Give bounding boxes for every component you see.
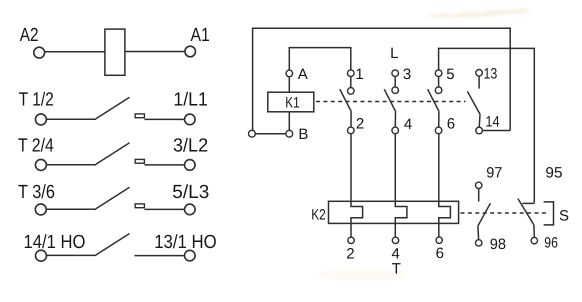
svg-text:1/L1: 1/L1 <box>173 89 207 110</box>
terminal 4 <box>392 127 399 134</box>
wire junction to B <box>253 133 290 135</box>
svg-text:14/1 HO: 14/1 HO <box>24 232 86 253</box>
contact pole 3-4 stub <box>394 77 396 88</box>
terminal 14/1 <box>36 250 47 261</box>
terminal 6 <box>435 127 442 134</box>
svg-text:96: 96 <box>544 234 558 251</box>
switch blade row2 <box>96 143 130 165</box>
svg-text:T 1/2: T 1/2 <box>19 89 54 110</box>
svg-text:3: 3 <box>403 66 411 83</box>
terminal 4 bottom <box>392 237 398 243</box>
aux contact 13-14 blade <box>467 91 480 114</box>
coil K1 rectangle <box>105 29 125 75</box>
terminal 5 <box>435 70 442 77</box>
wire K1 to B <box>288 112 290 131</box>
wire coil to A1 <box>125 51 185 53</box>
terminal 13/1 <box>185 250 196 261</box>
wire pole2 to K2 heater <box>395 134 407 238</box>
wire to 1/L1 <box>144 118 184 120</box>
overload relay K2 box <box>329 201 459 223</box>
svg-text:1: 1 <box>355 66 363 83</box>
terminal A <box>286 70 293 77</box>
terminal A1 <box>185 46 196 57</box>
wire A to K1 <box>288 77 290 93</box>
terminal T3/6 <box>35 204 46 215</box>
node junction left <box>249 130 256 137</box>
wire to 5/L3 <box>144 208 184 210</box>
svg-text:5: 5 <box>446 66 454 83</box>
svg-text:5/L3: 5/L3 <box>172 182 209 203</box>
NC contact 95-96 lower wire <box>533 225 535 238</box>
svg-text:B: B <box>298 126 308 143</box>
smudge top-right <box>425 9 533 18</box>
contact pole 1-2 stub <box>350 77 352 88</box>
terminal 97 <box>476 182 482 188</box>
svg-text:4: 4 <box>404 116 412 133</box>
fixed contact square row1 <box>135 114 144 118</box>
dashed linkage K1 <box>316 101 466 103</box>
svg-text:T 2/4: T 2/4 <box>18 136 54 157</box>
wire 14 to right riser <box>482 130 510 132</box>
svg-text:A2: A2 <box>20 25 39 46</box>
svg-text:S: S <box>559 208 569 225</box>
svg-text:K2: K2 <box>311 207 326 224</box>
wire to 3/L2 <box>144 164 184 166</box>
contact pole 3-4 lower wire <box>394 112 396 128</box>
terminal 1 <box>348 70 355 77</box>
terminal 98 <box>476 240 482 246</box>
contact pole 5-6 stub <box>438 77 440 88</box>
wire A to contact 1 <box>289 48 351 71</box>
top supply wire <box>253 28 511 130</box>
wire T1/2 <box>46 118 96 120</box>
wire T2/4 <box>46 164 96 166</box>
terminal B <box>286 130 293 137</box>
wire to 13/1 <box>134 255 184 257</box>
wire A2 to coil <box>45 51 105 53</box>
svg-text:K1: K1 <box>285 94 299 111</box>
svg-text:A1: A1 <box>191 25 210 46</box>
NC contact 95-96 blade <box>518 199 534 225</box>
aux contact lower wire <box>478 114 481 127</box>
svg-text:3/L2: 3/L2 <box>173 136 208 157</box>
svg-text:6: 6 <box>436 245 444 262</box>
switch blade row1 <box>96 97 130 119</box>
NC contact 95-96 seat <box>522 202 534 204</box>
svg-text:97: 97 <box>486 164 502 181</box>
terminal A2 <box>34 47 45 58</box>
svg-text:T 3/6: T 3/6 <box>18 182 55 203</box>
svg-text:13/1 HO: 13/1 HO <box>154 232 217 253</box>
terminal 2 <box>348 127 355 134</box>
svg-text:6: 6 <box>447 115 455 132</box>
svg-text:13: 13 <box>484 65 498 82</box>
switch blade row4 <box>96 234 130 256</box>
aux contact 13-14 stub <box>478 76 480 89</box>
wire T3/6 <box>46 208 96 210</box>
contact pole 5-6 lower wire <box>438 112 440 128</box>
aux contact 97-98 stub <box>478 189 480 202</box>
terminal 6 bottom <box>436 237 442 243</box>
switch blade row3 <box>96 187 130 209</box>
svg-text:95: 95 <box>545 164 562 181</box>
wire pole1 to K2 heater <box>351 134 363 238</box>
actuator bracket S <box>544 202 554 225</box>
wire 14/1 <box>47 254 97 256</box>
fixed contact square row3 <box>135 204 144 208</box>
wire pole3 to K2 heater <box>439 134 451 238</box>
svg-text:14: 14 <box>485 114 499 131</box>
dashed linkage K2 <box>461 212 549 214</box>
terminal T2/4 <box>35 159 46 170</box>
terminal 2 bottom <box>348 237 354 243</box>
svg-text:2: 2 <box>346 246 354 263</box>
terminal 14 <box>476 127 483 134</box>
contact pole 1-2 blade <box>340 89 352 111</box>
svg-text:A: A <box>298 66 308 83</box>
terminal 3 <box>392 70 399 77</box>
coil K1 box <box>268 92 314 112</box>
contact pole 1-2 lower wire <box>350 112 352 128</box>
terminal T1/2 <box>35 114 46 125</box>
contact point pole2 <box>392 87 399 94</box>
wire contact 5 to 95 <box>439 48 535 203</box>
contact pole 5-6 blade <box>428 89 440 111</box>
aux contact 97-98 blade <box>478 203 491 226</box>
aux contact 97-98 lower wire <box>477 226 480 239</box>
contact point pole3 <box>435 87 442 94</box>
terminal 13 <box>476 70 483 77</box>
terminal 96 <box>531 237 537 243</box>
svg-text:L: L <box>390 45 398 62</box>
svg-text:98: 98 <box>490 236 506 253</box>
terminal 5/L3 <box>185 204 196 215</box>
svg-text:T: T <box>392 261 401 278</box>
terminal 1/L1 <box>185 114 196 125</box>
contact pole 3-4 blade <box>384 89 396 111</box>
svg-text:2: 2 <box>356 115 364 132</box>
contact point pole1 <box>348 88 355 95</box>
smudge bottom <box>317 269 407 281</box>
terminal 3/L2 <box>185 160 196 171</box>
fixed contact square row2 <box>135 159 144 163</box>
